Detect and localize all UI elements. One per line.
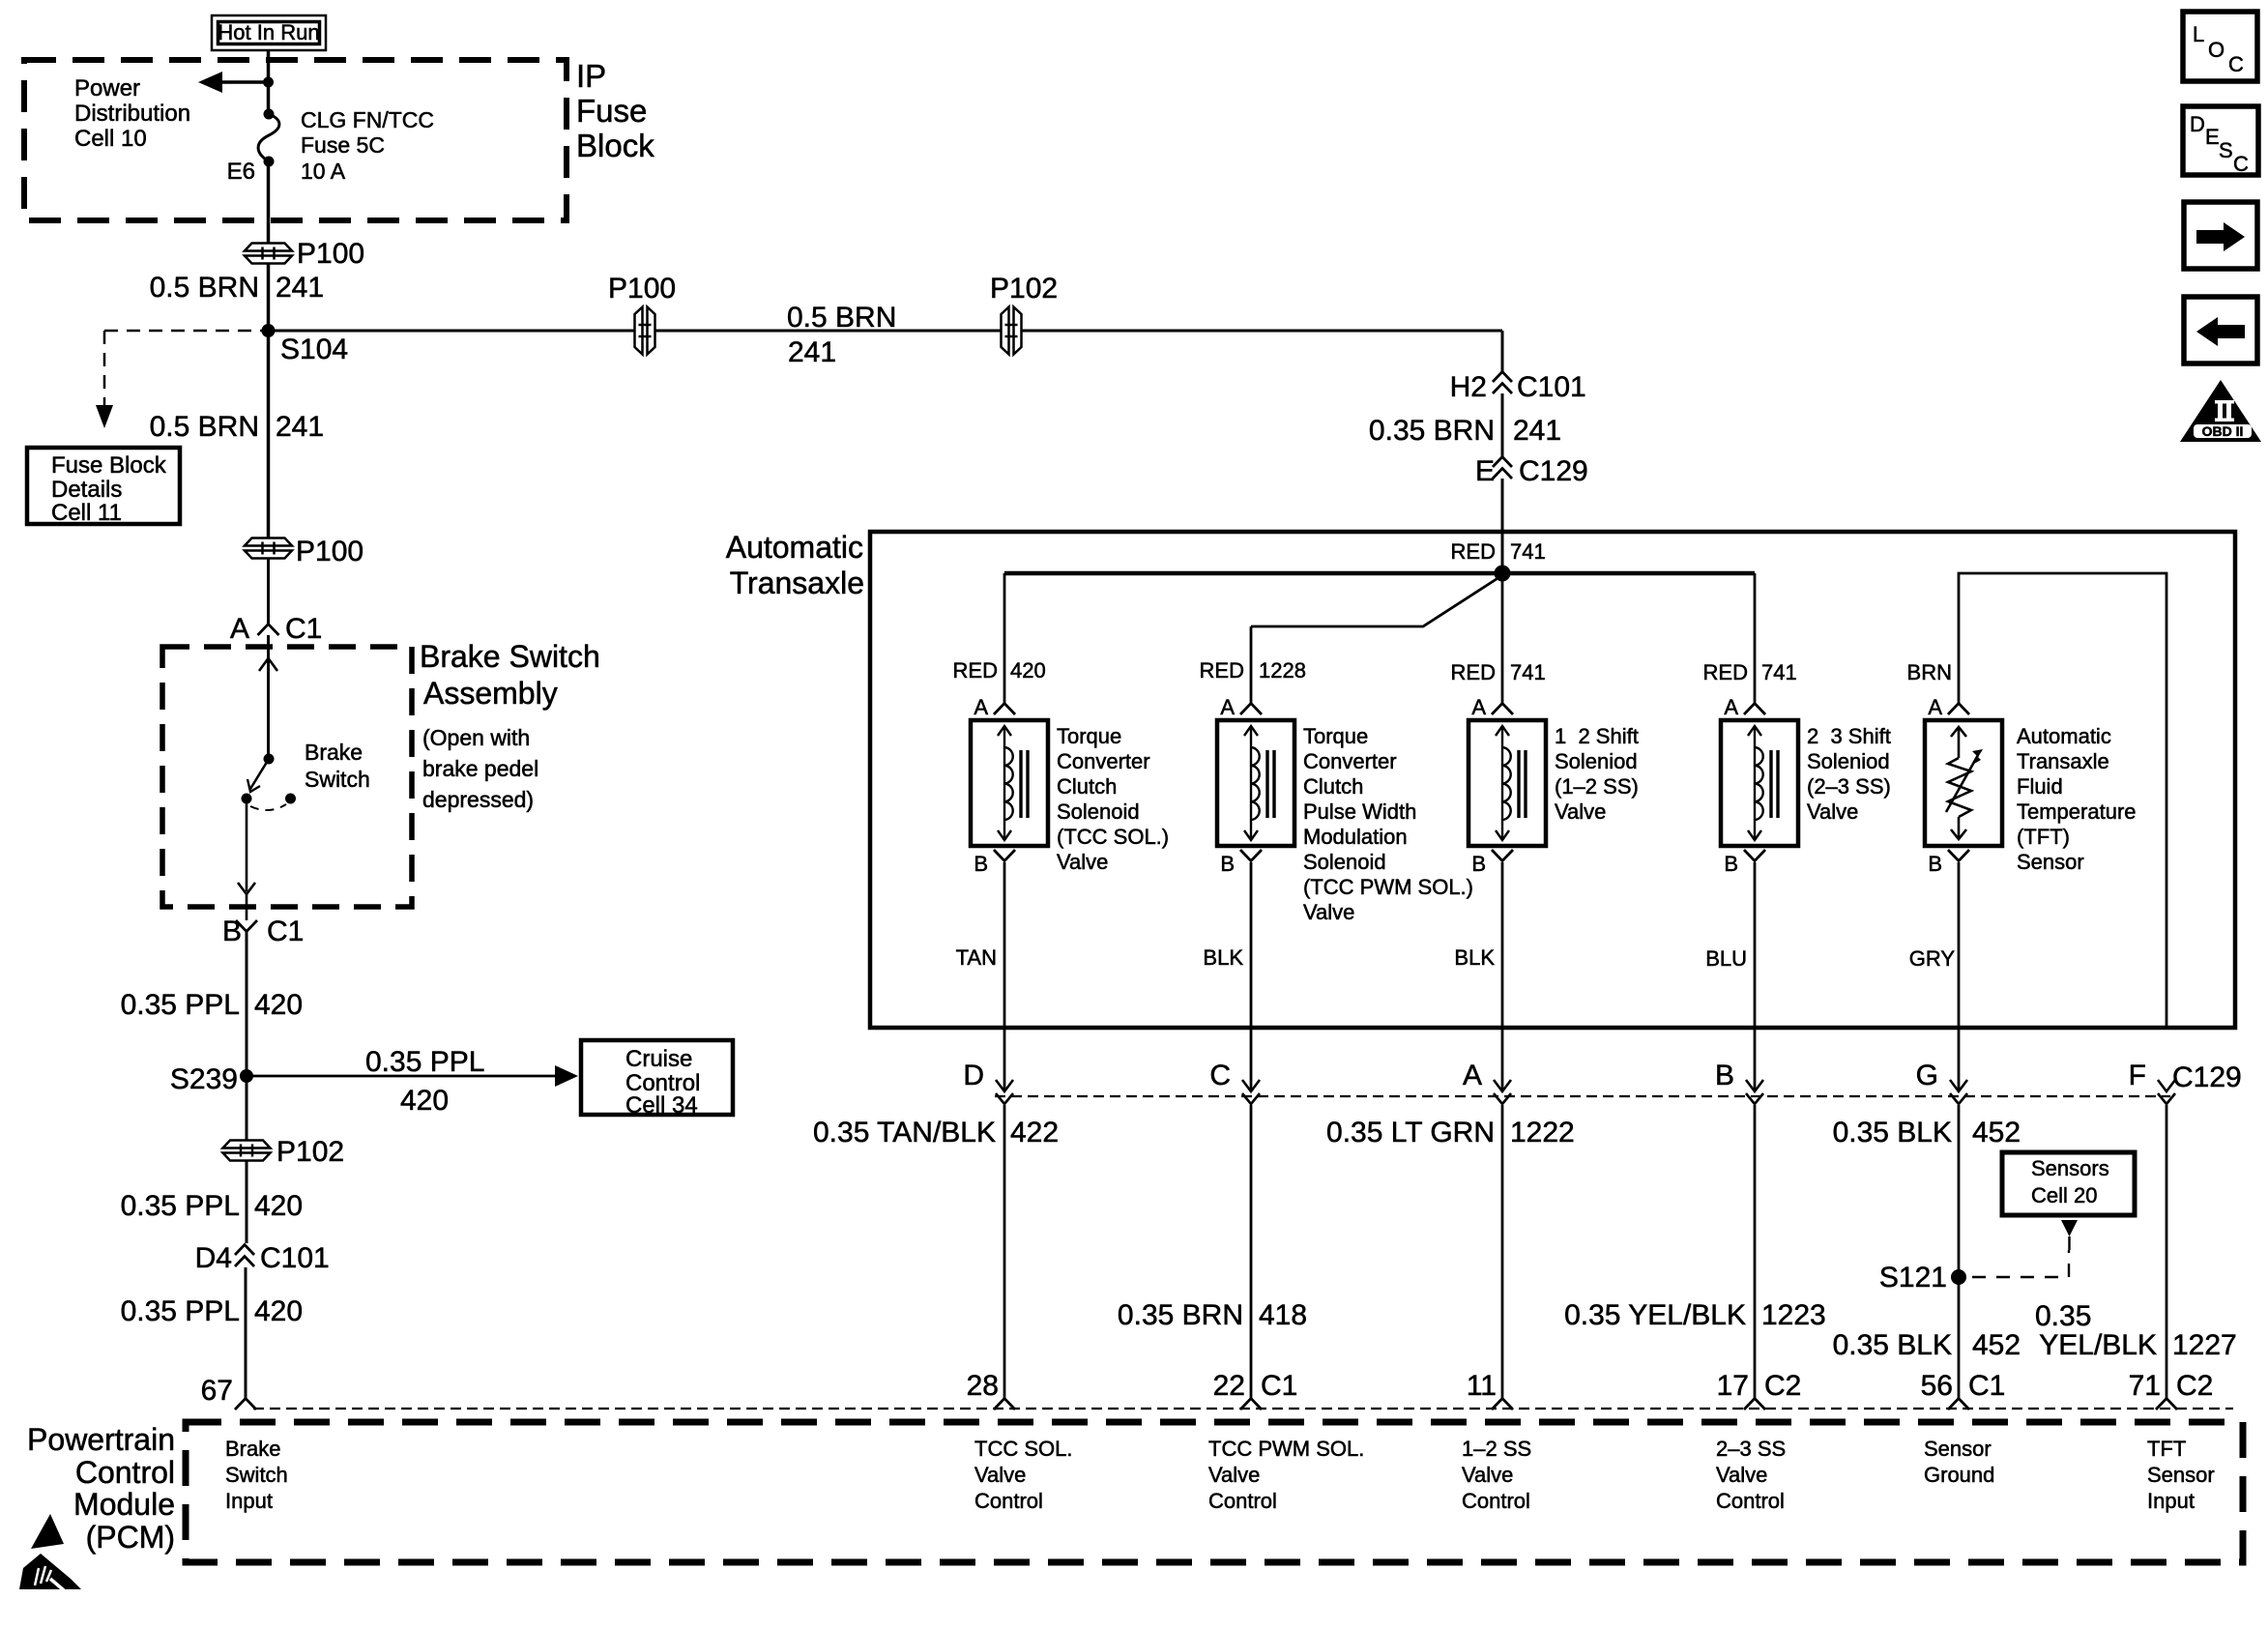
svg-text:Input: Input	[2147, 1489, 2195, 1513]
svg-text:E6: E6	[227, 159, 255, 185]
svg-text:TFT: TFT	[2147, 1437, 2186, 1461]
svg-text:0.35 BRN: 0.35 BRN	[1369, 415, 1495, 447]
wire label 0.5 BRN 241 (below S104)	[150, 411, 324, 443]
connector P100 (pass-through, top)	[245, 238, 364, 270]
pin B C129	[1715, 1060, 1763, 1104]
svg-text:L: L	[2193, 22, 2204, 46]
svg-text:B: B	[1928, 852, 1942, 876]
wire label 0.35 PPL 420 (2)	[121, 1190, 304, 1222]
svg-text:BLK: BLK	[1203, 945, 1243, 970]
svg-text:Valve: Valve	[1208, 1463, 1260, 1487]
svg-text:Clutch: Clutch	[1057, 774, 1117, 799]
svg-text:CLG FN/TCC: CLG FN/TCC	[301, 107, 434, 132]
connector D4 C101 (inline harness)	[195, 1242, 330, 1274]
svg-text:Control: Control	[1462, 1489, 1530, 1513]
svg-text:0.35 PPL: 0.35 PPL	[365, 1046, 484, 1078]
svg-text:D4: D4	[195, 1242, 232, 1274]
connector H2 C101 (inline harness)	[1450, 371, 1586, 403]
svg-text:452: 452	[1972, 1117, 2021, 1148]
svg-text:D: D	[2190, 112, 2205, 136]
svg-text:F: F	[2129, 1060, 2146, 1091]
svg-text:A: A	[1928, 695, 1942, 719]
wire BLK from 1-2 SS	[1501, 862, 1504, 1091]
PCM function label	[1462, 1437, 1531, 1513]
wire label 0.35 TAN/BLK 422	[813, 1117, 1059, 1148]
connector P100 (inline on horizontal bus)	[608, 273, 676, 355]
wire label 0.35 BLK 452	[1833, 1117, 2021, 1148]
pin G C129	[1916, 1060, 1967, 1104]
svg-text:Sensor: Sensor	[2147, 1463, 2215, 1487]
svg-text:1223: 1223	[1761, 1299, 1826, 1331]
svg-text:0.35: 0.35	[2035, 1300, 2091, 1332]
svg-text:BLU: BLU	[1705, 946, 1747, 971]
svg-text:C101: C101	[1517, 371, 1586, 403]
svg-text:C: C	[2233, 152, 2249, 176]
arrow to Power Distribution Cell 10	[74, 72, 274, 152]
svg-text:Fuse 5C: Fuse 5C	[301, 132, 385, 158]
wire from fuse to P100	[267, 161, 271, 243]
svg-text:B: B	[1220, 852, 1235, 876]
wire: S104 bus to right corner	[269, 330, 1503, 333]
PCM function label	[2147, 1437, 2215, 1513]
svg-text:420: 420	[254, 1295, 303, 1327]
svg-text:741: 741	[1510, 660, 1546, 684]
wire B C1 down to S239	[246, 932, 248, 1076]
wire: TFT sensor loop BRN to F	[1959, 573, 2166, 1028]
svg-text:741: 741	[1761, 660, 1797, 684]
svg-text:11: 11	[1467, 1370, 1497, 1402]
svg-text:Soleniod: Soleniod	[1807, 749, 1890, 773]
svg-text:Hot In Run: Hot In Run	[218, 20, 319, 44]
svg-text:452: 452	[1972, 1329, 2021, 1361]
svg-text:0.35 BLK: 0.35 BLK	[1833, 1329, 1952, 1361]
svg-text:(PCM): (PCM)	[86, 1520, 175, 1555]
svg-text:Valve: Valve	[1716, 1463, 1767, 1487]
svg-text:2–3 SS: 2–3 SS	[1716, 1437, 1786, 1461]
svg-text:1 2 Shift: 1 2 Shift	[1555, 724, 1639, 748]
svg-text:C129: C129	[1519, 455, 1588, 487]
svg-text:Module: Module	[73, 1487, 175, 1522]
svg-text:IP: IP	[576, 58, 606, 94]
svg-text:241: 241	[276, 411, 324, 443]
wire label 0.35 YEL/BLK 1223	[1564, 1299, 1826, 1331]
LOC reference box	[2183, 12, 2257, 81]
pin A C129	[1463, 1060, 1511, 1104]
svg-text:RED: RED	[1200, 658, 1244, 683]
svg-text:C1: C1	[1968, 1370, 2005, 1402]
svg-text:C: C	[2228, 52, 2244, 76]
svg-text:1222: 1222	[1510, 1117, 1575, 1148]
svg-text:O: O	[2208, 38, 2224, 62]
svg-text:B: B	[1724, 852, 1738, 876]
svg-text:Control: Control	[1716, 1489, 1785, 1513]
fuse CLG FN/TCC Fuse 5C 10 A	[227, 107, 434, 185]
pin C C129	[1209, 1060, 1260, 1104]
power label box "Hot In Run"	[212, 15, 326, 50]
svg-text:0.5 BRN: 0.5 BRN	[150, 411, 259, 443]
svg-text:YEL/BLK: YEL/BLK	[2039, 1329, 2157, 1361]
svg-text:Valve: Valve	[974, 1463, 1026, 1487]
svg-text:Details: Details	[51, 477, 122, 503]
svg-text:Cell 34: Cell 34	[625, 1092, 698, 1119]
connector E C129 (inline harness)	[1475, 455, 1588, 487]
svg-text:Control: Control	[75, 1455, 175, 1490]
wire P100 to S104	[267, 263, 271, 331]
svg-text:Sensors: Sensors	[2031, 1156, 2109, 1180]
wire P102 down	[246, 1160, 248, 1243]
pin D C129	[963, 1060, 1013, 1104]
svg-text:Solenoid: Solenoid	[1303, 850, 1386, 874]
svg-text:Sensor: Sensor	[2017, 850, 2084, 874]
svg-text:Control: Control	[1208, 1489, 1277, 1513]
svg-text:Cell 20: Cell 20	[2031, 1183, 2097, 1207]
svg-text:Valve: Valve	[1807, 799, 1858, 824]
svg-text:Valve: Valve	[1462, 1463, 1513, 1487]
svg-text:B: B	[974, 852, 988, 876]
PCM pin 71	[2129, 1370, 2214, 1410]
svg-text:Modulation: Modulation	[1303, 825, 1408, 849]
PCM pin 17	[1717, 1370, 1802, 1410]
svg-text:241: 241	[788, 336, 836, 368]
svg-text:Automatic: Automatic	[2017, 724, 2111, 748]
PCM pin 56	[1921, 1370, 2006, 1410]
svg-text:C1: C1	[267, 916, 304, 947]
svg-text:0.35 YEL/BLK: 0.35 YEL/BLK	[1564, 1299, 1746, 1331]
svg-text:depressed): depressed)	[422, 787, 534, 812]
svg-text:0.35 TAN/BLK: 0.35 TAN/BLK	[813, 1117, 996, 1148]
wire GRY from TFT	[1958, 862, 1961, 1091]
svg-text:E: E	[1475, 455, 1495, 487]
splice S121	[1879, 1250, 2069, 1294]
svg-text:418: 418	[1259, 1299, 1307, 1331]
svg-text:Distribution: Distribution	[74, 101, 190, 127]
svg-text:B: B	[1471, 852, 1486, 876]
svg-text:A: A	[230, 613, 249, 645]
svg-text:B: B	[222, 916, 242, 947]
svg-text:Switch: Switch	[305, 767, 370, 792]
svg-text:G: G	[1916, 1060, 1938, 1091]
svg-text:71: 71	[2129, 1370, 2161, 1402]
connector line at PCM (dashed)	[253, 1408, 2233, 1410]
wire label 0.35 PPL 420 (3)	[121, 1295, 304, 1327]
connector C129 interface (dashed)	[995, 1095, 2170, 1097]
svg-text:420: 420	[254, 1190, 303, 1222]
wire label 0.35 LT GRN 1222	[1326, 1117, 1575, 1148]
svg-text:22: 22	[1213, 1370, 1245, 1402]
wire: bus drop to 2-3 shift solenoid	[1754, 573, 1757, 703]
svg-text:Brake: Brake	[305, 740, 363, 765]
solenoid 2-3 shift valve	[1721, 695, 1891, 876]
svg-text:Torque: Torque	[1303, 724, 1368, 748]
svg-text:Valve: Valve	[1057, 850, 1108, 874]
svg-text:Pulse Width: Pulse Width	[1303, 799, 1416, 824]
svg-text:S239: S239	[170, 1063, 238, 1095]
DESC reference box	[2183, 106, 2258, 176]
label: IP Fuse Block	[576, 58, 654, 163]
connector P102 (pass-through)	[223, 1136, 345, 1168]
svg-text:BLK: BLK	[1454, 945, 1495, 970]
svg-text:Cell 10: Cell 10	[74, 126, 147, 152]
svg-text:2 3 Shift: 2 3 Shift	[1807, 724, 1891, 748]
pin F C129	[2129, 1060, 2175, 1104]
PCM function label	[1716, 1437, 1786, 1513]
svg-text:TCC PWM SOL.: TCC PWM SOL.	[1208, 1437, 1364, 1461]
wire BLK from TCC PWM SOL	[1250, 862, 1253, 1091]
svg-text:Powertrain: Powertrain	[27, 1422, 175, 1457]
svg-text:0.35 LT GRN: 0.35 LT GRN	[1326, 1117, 1495, 1148]
svg-text:TAN: TAN	[956, 945, 997, 970]
svg-text:TCC SOL.: TCC SOL.	[974, 1437, 1072, 1461]
wire 452 BLK to pin 56	[1958, 1105, 1961, 1398]
splice S239	[170, 1063, 253, 1095]
solenoid 1-2 shift valve	[1468, 695, 1639, 876]
svg-text:420: 420	[400, 1085, 449, 1117]
connector P102 (inline on horizontal bus)	[990, 273, 1058, 355]
svg-text:C1: C1	[285, 613, 322, 645]
svg-text:(TCC SOL.): (TCC SOL.)	[1057, 825, 1169, 849]
label: Powertrain Control Module (PCM)	[27, 1422, 175, 1555]
svg-text:241: 241	[276, 272, 324, 304]
PCM function label	[1924, 1437, 1994, 1487]
svg-text:Input: Input	[225, 1489, 273, 1513]
svg-text:420: 420	[1010, 658, 1046, 683]
label: Brake Switch Assembly	[420, 639, 600, 812]
svg-text:Power: Power	[74, 75, 140, 102]
svg-text:Brake Switch: Brake Switch	[420, 639, 600, 674]
arrow to Cruise Control Cell 34	[247, 1046, 578, 1117]
svg-text:28: 28	[967, 1370, 999, 1402]
PCM function label	[225, 1437, 288, 1513]
svg-text:S104: S104	[280, 334, 348, 365]
wire label 0.35 PPL 420	[121, 989, 304, 1021]
wire P100 to brake switch	[267, 558, 270, 624]
svg-text:10 A: 10 A	[301, 159, 346, 184]
svg-text:Soleniod: Soleniod	[1555, 749, 1638, 773]
wire label 0.35 BLK 452 (lower)	[1833, 1329, 2021, 1361]
wire 1227 YEL/BLK to pin 71	[2166, 1105, 2168, 1398]
svg-text:Assembly: Assembly	[423, 676, 558, 711]
sensor TFT (thermistor)	[1925, 695, 2137, 876]
svg-text:0.35 PPL: 0.35 PPL	[121, 1295, 240, 1327]
connector pin A C1 (brake switch)	[230, 613, 322, 645]
svg-text:(TFT): (TFT)	[2017, 825, 2070, 849]
svg-text:C: C	[1209, 1060, 1231, 1091]
svg-text:Clutch: Clutch	[1303, 774, 1363, 799]
svg-text:241: 241	[1513, 415, 1561, 447]
label: Automatic Transaxle	[726, 530, 864, 600]
svg-text:Automatic: Automatic	[726, 530, 863, 565]
svg-text:RED: RED	[1451, 660, 1496, 684]
PCM pin 11	[1467, 1370, 1513, 1410]
wire S239 to P102	[246, 1076, 248, 1140]
svg-text:RED: RED	[1703, 660, 1748, 684]
svg-text:H2: H2	[1450, 371, 1487, 403]
reference box: Cruise Control Cell 34	[581, 1040, 733, 1119]
solenoid TCC PWM SOL valve	[1217, 695, 1473, 924]
svg-text:RED: RED	[953, 658, 998, 683]
wire S104 down to P100	[267, 331, 271, 538]
svg-text:BRN: BRN	[1907, 660, 1952, 684]
svg-text:Torque: Torque	[1057, 724, 1121, 748]
svg-text:0.35 BLK: 0.35 BLK	[1833, 1117, 1952, 1148]
svg-text:C129: C129	[2172, 1061, 2242, 1093]
wire label 0.5 BRN 241	[150, 272, 324, 304]
svg-text:0.35 PPL: 0.35 PPL	[121, 989, 240, 1021]
svg-text:0.5 BRN: 0.5 BRN	[150, 272, 259, 304]
svg-text:0.35 BRN: 0.35 BRN	[1118, 1299, 1243, 1331]
svg-text:422: 422	[1010, 1117, 1059, 1148]
svg-text:A: A	[1471, 695, 1486, 719]
svg-text:(1–2 SS): (1–2 SS)	[1555, 774, 1639, 799]
svg-text:Fuse: Fuse	[576, 93, 647, 129]
svg-text:1–2 SS: 1–2 SS	[1462, 1437, 1531, 1461]
svg-text:Cell 11: Cell 11	[51, 500, 122, 526]
svg-text:Temperature: Temperature	[2017, 799, 2137, 824]
svg-text:(TCC PWM SOL.): (TCC PWM SOL.)	[1303, 875, 1473, 899]
svg-text:420: 420	[254, 989, 303, 1021]
svg-text:C2: C2	[2176, 1370, 2213, 1402]
PCM pin 28	[967, 1370, 1015, 1410]
reference box: Sensors Cell 20	[2002, 1152, 2135, 1250]
svg-text:Switch: Switch	[225, 1463, 288, 1487]
svg-text:P102: P102	[990, 273, 1058, 305]
svg-text:Sensor: Sensor	[1924, 1437, 1992, 1461]
wire label 0.5 BRN 241 (horizontal run)	[787, 302, 896, 368]
wire from Hot In Run into IP fuse block	[267, 50, 271, 112]
ESD sensitivity symbol	[19, 1514, 81, 1590]
PCM dashed enclosure	[186, 1422, 2243, 1562]
wire 1222 LT GRN to pin 11	[1501, 1105, 1504, 1398]
node: RED 741 bus + splice	[1004, 539, 1755, 582]
svg-text:E: E	[2205, 125, 2220, 149]
svg-text:S121: S121	[1879, 1262, 1947, 1294]
splice S104	[262, 324, 349, 365]
svg-text:S: S	[2219, 138, 2233, 162]
previous-page arrow box	[2184, 297, 2257, 363]
wire 1223 YEL/BLK to pin 17	[1754, 1105, 1757, 1398]
wire labels at solenoid feeds	[953, 658, 1046, 683]
svg-text:GRY: GRY	[1909, 946, 1956, 971]
svg-text:17: 17	[1717, 1370, 1749, 1402]
solenoid TCC SOL valve	[971, 695, 1169, 876]
svg-text:A: A	[1220, 695, 1235, 719]
svg-text:P100: P100	[608, 273, 676, 305]
svg-text:(2–3 SS): (2–3 SS)	[1807, 774, 1891, 799]
svg-text:C2: C2	[1764, 1370, 1801, 1402]
svg-text:Fluid: Fluid	[2017, 774, 2063, 799]
svg-text:B: B	[1715, 1060, 1734, 1091]
svg-text:0.5 BRN: 0.5 BRN	[787, 302, 896, 334]
svg-text:Transaxle: Transaxle	[730, 566, 864, 600]
svg-text:D: D	[963, 1060, 984, 1091]
svg-text:Ground: Ground	[1924, 1463, 1994, 1487]
svg-text:Transaxle: Transaxle	[2017, 749, 2109, 773]
svg-text:(Open with: (Open with	[422, 725, 530, 750]
svg-text:Control: Control	[974, 1489, 1043, 1513]
svg-text:A: A	[1463, 1060, 1482, 1091]
wire label 0.35 BRN 241	[1369, 415, 1561, 447]
wire: bus drop to 1-2 shift solenoid	[1501, 573, 1504, 703]
connector P100 (pass-through, lower)	[245, 536, 363, 567]
wire C101 to PCM pin 67	[245, 1267, 247, 1398]
svg-text:P100: P100	[297, 238, 364, 270]
wire label 0.35 YEL/BLK 1227	[2035, 1300, 2237, 1361]
Automatic Transaxle enclosure	[870, 532, 2235, 1028]
PCM pin 67	[201, 1375, 256, 1410]
dashed branch from S104 to Fuse Block Details	[96, 331, 262, 428]
svg-text:brake pedel: brake pedel	[422, 756, 538, 781]
wire label 0.35 BRN 418	[1118, 1299, 1307, 1331]
connector pin B C1 (brake switch out)	[222, 916, 304, 947]
svg-text:67: 67	[201, 1375, 233, 1407]
next-page arrow box	[2184, 202, 2257, 269]
svg-text:Converter: Converter	[1303, 749, 1397, 773]
PCM function label	[1208, 1437, 1364, 1513]
svg-text:Fuse Block: Fuse Block	[51, 452, 167, 479]
svg-text:741: 741	[1510, 539, 1546, 564]
svg-text:Valve: Valve	[1303, 900, 1354, 924]
svg-text:Valve: Valve	[1555, 799, 1606, 824]
svg-text:A: A	[1724, 695, 1738, 719]
svg-text:Brake: Brake	[225, 1437, 280, 1461]
svg-text:OBD II: OBD II	[2202, 423, 2244, 439]
svg-text:Converter: Converter	[1057, 749, 1150, 773]
svg-text:C101: C101	[260, 1242, 330, 1274]
OBD II symbol	[2180, 380, 2261, 442]
wire: bus corner down to transaxle	[1501, 331, 1504, 371]
wire 422 TAN/BLK to pin 28	[1003, 1105, 1006, 1398]
PCM pin 22	[1213, 1370, 1298, 1410]
svg-text:1227: 1227	[2172, 1329, 2237, 1361]
Brake Switch Assembly dashed enclosure	[162, 647, 412, 907]
IP Fuse Block dashed enclosure	[24, 60, 567, 220]
svg-text:0.35 PPL: 0.35 PPL	[121, 1190, 240, 1222]
wire BLU from 2-3 SS	[1754, 862, 1757, 1091]
svg-text:C1: C1	[1261, 1370, 1297, 1402]
brake switch	[238, 635, 370, 920]
wire TAN from TCC SOL	[1003, 862, 1006, 1091]
svg-text:RED: RED	[1451, 539, 1496, 564]
wire into transaxle	[1501, 479, 1504, 573]
wire: bus drop to TCC solenoid	[1003, 573, 1006, 703]
wire: diagonal branch to TCC PWM solenoid	[1251, 577, 1499, 703]
svg-text:P102: P102	[276, 1136, 344, 1168]
svg-text:A: A	[974, 695, 988, 719]
wire 418 BRN to pin 22	[1250, 1105, 1253, 1398]
svg-text:Solenoid: Solenoid	[1057, 799, 1140, 824]
svg-text:56: 56	[1921, 1370, 1953, 1402]
svg-text:Block: Block	[576, 128, 654, 163]
svg-text:1228: 1228	[1259, 658, 1306, 683]
reference box: Fuse Block Details Cell 11	[27, 448, 180, 526]
svg-text:P100: P100	[296, 536, 363, 567]
PCM function label	[974, 1437, 1072, 1513]
wire	[1501, 393, 1504, 456]
svg-text:Cruise: Cruise	[625, 1046, 692, 1072]
